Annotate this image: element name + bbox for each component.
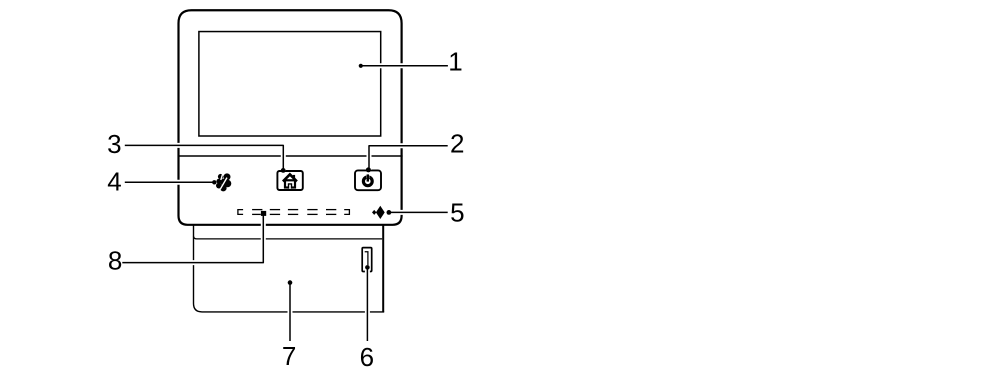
- diamond marks (item 5): [376, 206, 385, 219]
- callout lines with white casing: [122, 66, 448, 341]
- screen (item 1): [199, 32, 381, 136]
- callout 7 endpoint dot on tray front: [288, 280, 293, 285]
- callout 7 leader line: [288, 283, 293, 341]
- tray lip line: [194, 236, 383, 239]
- svg-text:8: 8: [108, 246, 122, 276]
- svg-text:6: 6: [360, 342, 374, 372]
- callout 3 leader line: [125, 145, 283, 170]
- svg-text:7: 7: [282, 341, 296, 371]
- svg-text:4: 4: [107, 167, 121, 197]
- home icon: [283, 174, 297, 188]
- tray right edge: [382, 225, 384, 312]
- callout 1 endpoint dot on screen: [359, 64, 363, 68]
- callout 4 leader line: [125, 180, 215, 185]
- callout 2 endpoint dot on power button: [366, 167, 371, 172]
- svg-text:1: 1: [448, 47, 462, 77]
- callout 4 endpoint dot on NFC mark: [212, 180, 216, 184]
- power icon: [363, 174, 372, 186]
- svg-text:2: 2: [450, 128, 464, 158]
- NFC mark icon (item 4): [216, 173, 231, 191]
- callout 1 leader line: [361, 63, 448, 68]
- callout 5 leader line: [389, 210, 448, 215]
- speaker slot strip (item 8): [238, 210, 350, 215]
- svg-text:5: 5: [450, 198, 464, 228]
- svg-text:3: 3: [107, 129, 121, 159]
- card slot (item 6): [362, 248, 372, 272]
- tray left and bottom edge (item 7): [194, 225, 385, 312]
- separator line: [178, 155, 403, 157]
- callout 8 leader line: [122, 214, 263, 263]
- home button (item 3): [277, 171, 302, 190]
- callout 6 endpoint dot on card slot: [365, 265, 370, 270]
- callout 6 leader line: [365, 267, 370, 341]
- callout 8 endpoint square on slot strip: [261, 211, 266, 216]
- callout 5 endpoint dot near status diamond: [387, 210, 392, 215]
- device outer body: [179, 10, 402, 225]
- callout 3 endpoint dot on home button: [281, 168, 286, 173]
- power button (item 2): [355, 170, 381, 190]
- callout 2 leader line: [369, 146, 448, 170]
